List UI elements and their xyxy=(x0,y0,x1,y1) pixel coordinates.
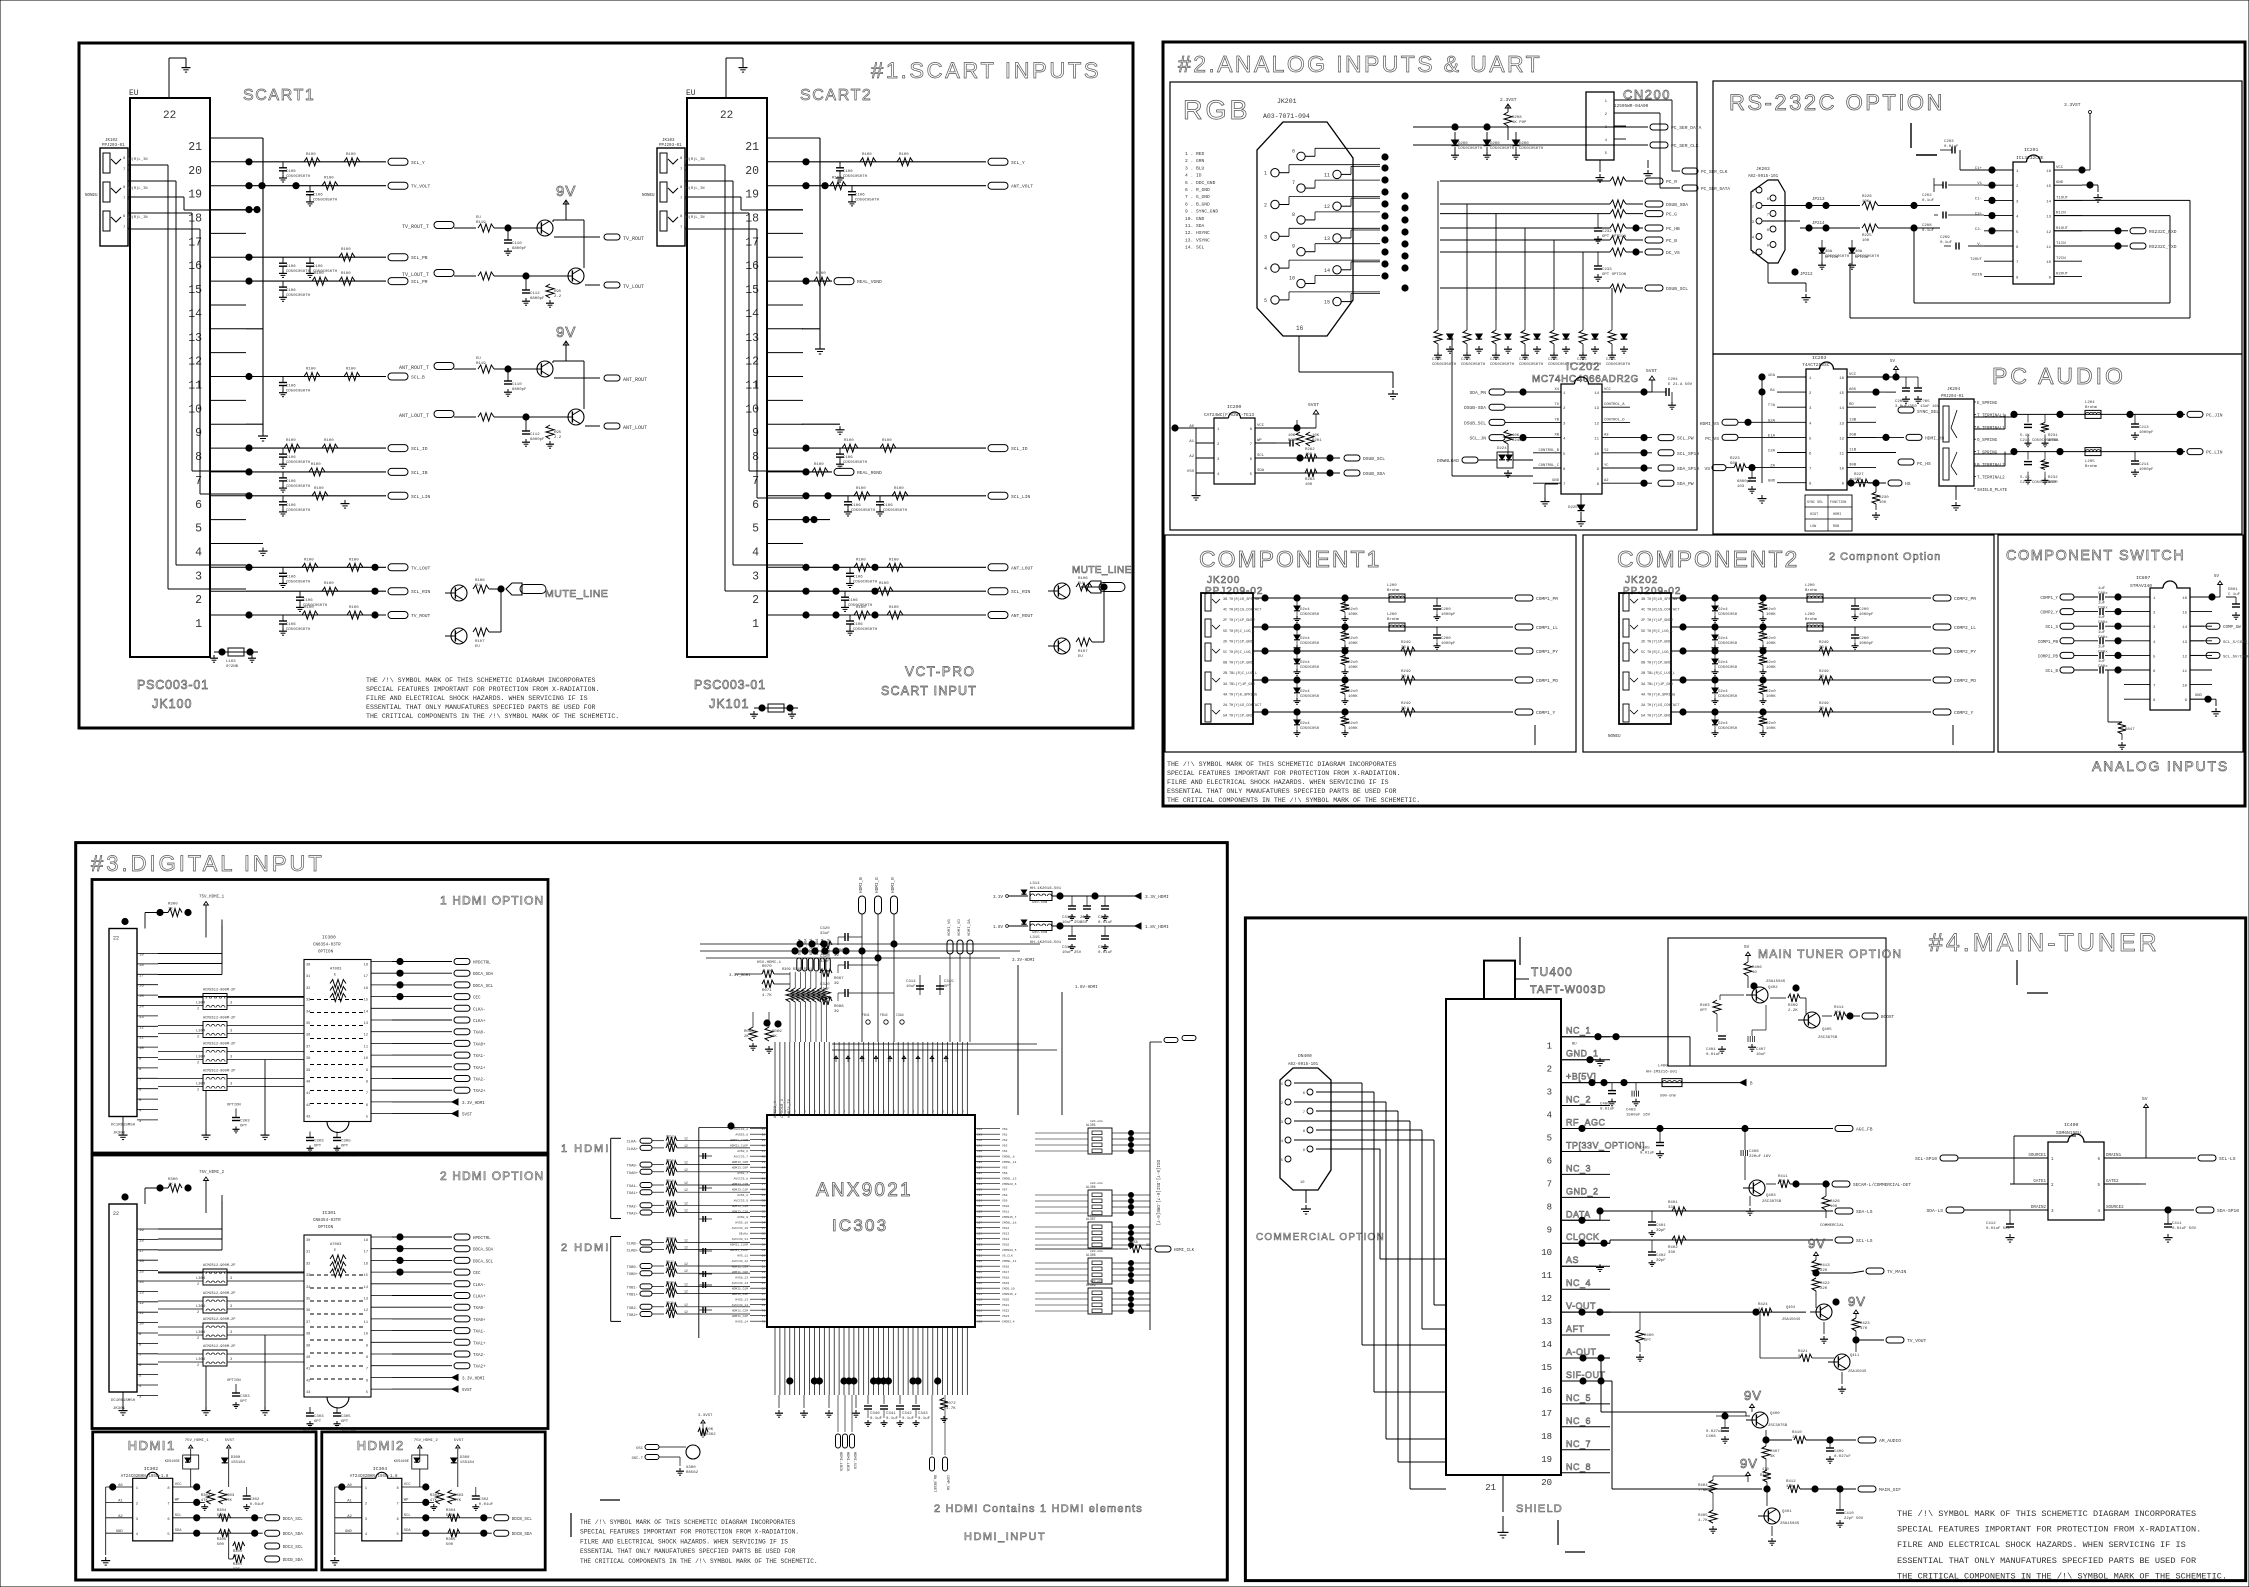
svg-text:C80x: C80x xyxy=(2098,665,2108,669)
svg-text:MC74HC4066ADR2G: MC74HC4066ADR2G xyxy=(1532,374,1639,385)
svg-text:R403: R403 xyxy=(1700,1004,1710,1008)
svg-text:TBL(Y)1P_GND: TBL(Y)1P_GND xyxy=(1229,682,1255,687)
resistor R240 10K xyxy=(1504,430,1512,444)
svg-text:100K: 100K xyxy=(1766,727,1776,731)
svg-text:E_SPRING: E_SPRING xyxy=(1977,402,1998,406)
svg-text:5V: 5V xyxy=(2214,575,2220,579)
svg-text:R100: R100 xyxy=(814,463,824,467)
svg-text:SCL_PR: SCL_PR xyxy=(411,279,428,285)
svg-text:AL309: AL309 xyxy=(1086,1283,1096,1287)
svg-text:6: 6 xyxy=(195,499,202,512)
svg-text:C320: C320 xyxy=(820,927,830,931)
pin 7 IC304 xyxy=(402,1501,426,1503)
svg-text:D2x4: D2x4 xyxy=(1300,690,1310,694)
svg-text:C205: C205 xyxy=(1432,358,1442,362)
svg-text:2: 2 xyxy=(197,1311,199,1315)
resistor series DSUB_SCL xyxy=(1610,284,1626,292)
svg-text:12: 12 xyxy=(684,1209,688,1213)
svg-text:4.7K: 4.7K xyxy=(762,994,772,998)
svg-text:R100: R100 xyxy=(889,558,899,562)
svg-text:6: 6 xyxy=(1250,458,1253,462)
svg-text:R100: R100 xyxy=(346,368,356,372)
svg-text:|: | xyxy=(785,1109,787,1113)
net PC_JIN xyxy=(2012,413,2185,415)
svg-text:VS3: VS3 xyxy=(1002,1145,1008,1148)
svg-text:|: | xyxy=(893,1109,895,1113)
svg-text:10: 10 xyxy=(364,1057,368,1061)
svg-text:C106: C106 xyxy=(851,504,861,508)
bottom component cluster xyxy=(867,1395,869,1404)
svg-text:12: 12 xyxy=(684,1290,688,1294)
svg-text:11: 11 xyxy=(2182,670,2187,674)
svg-text:5: 5 xyxy=(2016,231,2019,235)
svg-text:17: 17 xyxy=(139,974,144,978)
svg-text:C403: C403 xyxy=(1626,1109,1636,1113)
svg-text:12: 12 xyxy=(1541,1294,1552,1304)
transistor Q411 xyxy=(1834,1354,1850,1370)
svg-text:AL308: AL308 xyxy=(1086,1253,1096,1257)
svg-text:2: 2 xyxy=(365,1502,368,1506)
svg-text:REAL_RGND: REAL_RGND xyxy=(857,470,882,476)
svg-text:4.7K: 4.7K xyxy=(1698,1519,1708,1523)
svg-text:C232: C232 xyxy=(1602,230,1612,234)
svg-text:14: 14 xyxy=(1839,407,1844,411)
svg-text:6: 6 xyxy=(366,1104,368,1108)
svg-text:IC304: IC304 xyxy=(373,1466,388,1472)
svg-text:VS14: VS14 xyxy=(1002,1238,1009,1241)
svg-text:TXB2+: TXB2+ xyxy=(627,1314,639,1318)
svg-text:OPTION: OPTION xyxy=(227,1104,241,1108)
svg-text:2: 2 xyxy=(1752,206,1755,210)
svg-text:OPT OPTION: OPT OPTION xyxy=(1602,235,1627,239)
svg-text:FB42: FB42 xyxy=(880,1013,888,1017)
transistor Q2 xyxy=(568,268,584,284)
svg-text:1SS184: 1SS184 xyxy=(460,1461,475,1465)
svg-text:21: 21 xyxy=(745,141,759,154)
svg-text:C341: C341 xyxy=(886,1412,896,1416)
svg-text:11: 11 xyxy=(364,1321,368,1325)
svg-text:1: 1 xyxy=(2016,170,2019,174)
capacitor C403 xyxy=(1635,1083,1637,1091)
svg-text:38: 38 xyxy=(762,1134,766,1137)
pin 6 IC200 xyxy=(1255,457,1276,459)
svg-text:T?A: T?A xyxy=(1768,404,1776,408)
svg-text:HVS5_14: HVS5_14 xyxy=(735,1321,748,1324)
svg-text:C400: C400 xyxy=(1600,1103,1610,1107)
resistor xyxy=(312,277,328,285)
pin 10 IC202 xyxy=(1602,452,1630,454)
svg-text:TH(R)L_IN: TH(R)L_IN xyxy=(684,157,705,162)
svg-text:10K: 10K xyxy=(1834,1011,1842,1015)
pin 3 IC203 xyxy=(1777,406,1806,408)
svg-text:OPT: OPT xyxy=(240,1400,248,1404)
resistor R411 10K xyxy=(1766,1183,1776,1185)
svg-text:37: 37 xyxy=(306,1321,310,1325)
svg-text:5: 5 xyxy=(195,523,202,536)
pin 12 IC807 xyxy=(2190,654,2212,656)
svg-text:12: 12 xyxy=(684,1137,688,1141)
svg-text:R262: R262 xyxy=(1305,448,1315,452)
svg-text:2SC3875B: 2SC3875B xyxy=(1818,1036,1838,1040)
resistor R102 xyxy=(454,416,476,418)
svg-text:R413: R413 xyxy=(1820,1264,1830,1268)
pin 5 IC201 xyxy=(1984,230,2013,232)
svg-text:IC807: IC807 xyxy=(2136,575,2151,581)
ground IC201 xyxy=(2082,184,2098,186)
jack 4 of JK202 xyxy=(1623,672,1629,690)
svg-text:AL307: AL307 xyxy=(1086,1217,1096,1221)
svg-text:39: 39 xyxy=(1146,1243,1150,1247)
svg-text:HDMI_G: HDMI_G xyxy=(875,877,880,893)
capacitor series xyxy=(2099,637,2101,644)
svg-text:7: 7 xyxy=(1767,214,1769,218)
svg-text:7: 7 xyxy=(680,197,682,201)
svg-text:CMOS_10: CMOS_10 xyxy=(1002,1288,1015,1291)
pin 12 IC202 xyxy=(1602,421,1630,423)
svg-text:132: 132 xyxy=(977,1194,982,1197)
svg-text:52: 52 xyxy=(762,1211,766,1214)
resistor R106 xyxy=(473,585,489,593)
svg-text:C106: C106 xyxy=(313,265,323,269)
svg-text:R100: R100 xyxy=(882,439,892,443)
svg-text:22: 22 xyxy=(113,1211,119,1217)
svg-text:113: 113 xyxy=(977,1299,982,1302)
resistor xyxy=(877,587,893,595)
transistor Q404 xyxy=(1816,1304,1832,1320)
svg-text:119: 119 xyxy=(977,1266,982,1269)
svg-text:VS: VS xyxy=(1704,466,1710,472)
terminal HDMI_R xyxy=(891,896,898,914)
svg-text:ANALOG INPUTS: ANALOG INPUTS xyxy=(2092,758,2229,774)
svg-text:2: 2 xyxy=(1605,113,1608,117)
svg-text:1 . RED: 1 . RED xyxy=(1185,151,1205,157)
svg-text:8: 8 xyxy=(123,186,126,190)
svg-text:R100: R100 xyxy=(856,558,866,562)
svg-text:L204: L204 xyxy=(2085,401,2095,405)
svg-text:9: 9 xyxy=(366,1344,368,1348)
svg-text:TX: TX xyxy=(1554,403,1559,407)
svg-text:VS16: VS16 xyxy=(1002,1266,1009,1269)
svg-text:8: 8 xyxy=(1767,229,1770,233)
svg-text:0.01uF: 0.01uF xyxy=(479,1503,494,1507)
svg-text:500: 500 xyxy=(446,1514,454,1518)
pin 16 IC807 xyxy=(2190,596,2212,598)
svg-text:C2-: C2- xyxy=(1975,228,1982,232)
svg-text:1K: 1K xyxy=(168,1183,173,1187)
svg-text:15: 15 xyxy=(364,1274,368,1278)
svg-text:128: 128 xyxy=(977,1216,982,1219)
svg-text:COMP1_PR: COMP1_PR xyxy=(1536,596,1558,602)
svg-text:60: 60 xyxy=(762,1255,766,1258)
svg-text:C404: C404 xyxy=(1706,1048,1716,1052)
svg-text:CD50C050TH: CD50C050TH xyxy=(851,509,876,513)
svg-text:CMOSL_13: CMOSL_13 xyxy=(1002,1178,1017,1181)
svg-text:22: 22 xyxy=(163,110,176,122)
terminal VS resistor R223 xyxy=(1712,465,1726,471)
svg-text:C3A4: C3A4 xyxy=(896,1013,904,1017)
svg-text:Q403: Q403 xyxy=(1766,1194,1776,1198)
svg-text:R071: R071 xyxy=(762,989,772,993)
svg-text:15: 15 xyxy=(1839,392,1844,396)
pin 4 DN400 xyxy=(1285,1137,1291,1143)
svg-text:5V: 5V xyxy=(2142,1096,2148,1102)
svg-text:DDCA_SCL: DDCA_SCL xyxy=(473,985,494,989)
svg-text:CD50C050TH: CD50C050TH xyxy=(286,509,311,513)
svg-text:1uF: 1uF xyxy=(2098,631,2106,635)
svg-text:C80x: C80x xyxy=(2098,621,2108,625)
svg-text:R305: R305 xyxy=(446,1538,456,1542)
svg-text:VS6: VS6 xyxy=(1002,1172,1008,1175)
svg-text:TXB0+: TXB0+ xyxy=(627,1273,639,1277)
svg-text:12. HSYNC: 12. HSYNC xyxy=(1185,230,1210,236)
svg-text:C106: C106 xyxy=(853,623,863,627)
svg-text:SCL_PB: SCL_PB xyxy=(411,255,428,261)
svg-text:KDS160E: KDS160E xyxy=(394,1460,409,1464)
svg-text:CD50C050: CD50C050 xyxy=(1718,613,1738,617)
svg-text:VS18: VS18 xyxy=(1002,1277,1009,1280)
svg-text:CONTROL_D: CONTROL_D xyxy=(1604,418,1625,422)
svg-text:43: 43 xyxy=(306,1116,310,1120)
svg-text:8: 8 xyxy=(680,157,683,161)
svg-text:16: 16 xyxy=(364,987,368,991)
capacitor xyxy=(839,162,841,168)
svg-text:10: 10 xyxy=(139,1047,144,1051)
svg-text:DDCB_SDA: DDCB_SDA xyxy=(283,1559,304,1563)
transistor Q401 xyxy=(1764,1508,1780,1524)
svg-text:1.8V-HDMI: 1.8V-HDMI xyxy=(1075,986,1098,990)
svg-text:2: 2 xyxy=(2153,612,2156,616)
bracket 2 HDMI xyxy=(610,1237,612,1322)
resistor xyxy=(312,492,328,500)
svg-text:R106: R106 xyxy=(1078,577,1088,581)
svg-text:GND: GND xyxy=(1768,480,1776,484)
svg-text:PSC003-01: PSC003-01 xyxy=(694,678,766,692)
IC IC303 ANX9021 body xyxy=(767,1115,975,1327)
svg-text:C203: C203 xyxy=(1944,140,1954,144)
svg-text:TXA0+: TXA0+ xyxy=(473,1043,486,1047)
svg-text:L304: L304 xyxy=(196,1331,206,1335)
svg-text:121: 121 xyxy=(977,1255,982,1258)
svg-text:TV_VOLT: TV_VOLT xyxy=(411,184,431,190)
svg-text:46: 46 xyxy=(762,1178,766,1181)
svg-text:SCL_S: SCL_S xyxy=(2045,626,2058,630)
svg-text:|: | xyxy=(795,1109,797,1113)
svg-text:3.3V_HDMI: 3.3V_HDMI xyxy=(1145,895,1169,900)
terminal TV_LOUT xyxy=(388,564,408,571)
svg-text:C401: C401 xyxy=(1656,1224,1666,1228)
svg-text:WP: WP xyxy=(175,1498,180,1502)
svg-text:131: 131 xyxy=(977,1200,982,1203)
svg-text:SDA: SDA xyxy=(1257,469,1265,473)
svg-text:6: 6 xyxy=(1767,198,1770,202)
svg-text:4: 4 xyxy=(1217,473,1220,477)
svg-text:2: 2 xyxy=(1281,1102,1284,1106)
terminal PC_R xyxy=(1645,178,1663,184)
svg-text:201B: 201B xyxy=(1080,916,1090,920)
svg-text:R249: R249 xyxy=(1401,641,1411,645)
svg-text:500: 500 xyxy=(446,1543,454,1547)
svg-text:L103: L103 xyxy=(226,660,236,664)
internal dashed rows IC xyxy=(310,999,365,1001)
svg-text:1000pF: 1000pF xyxy=(2139,468,2154,472)
svg-text:3: 3 xyxy=(136,1518,139,1522)
svg-text:GND: GND xyxy=(2056,181,2064,185)
connector JK102 jack body xyxy=(100,148,128,246)
svg-text:CD50C050TH: CD50C050TH xyxy=(286,294,311,298)
svg-text:135: 135 xyxy=(977,1178,982,1181)
svg-text:HDMI-LBCK: HDMI-LBCK xyxy=(845,1452,849,1472)
svg-text:14. SCL: 14. SCL xyxy=(1185,245,1205,251)
svg-text:PC_SER_DATA: PC_SER_DATA xyxy=(1671,125,1702,131)
svg-text:39pF: 39pF xyxy=(1656,1229,1666,1233)
svg-text:DSUB_SCL: DSUB_SCL xyxy=(1666,286,1688,292)
svg-text:COMP_SW: COMP_SW xyxy=(945,1475,949,1491)
svg-text:C106: C106 xyxy=(855,194,865,198)
svg-text:L200: L200 xyxy=(1387,613,1397,617)
transistor Q108 xyxy=(451,628,467,644)
svg-text:33: 33 xyxy=(1819,707,1824,711)
svg-text:FILRE AND ELECTRICAL SHOCK HAZ: FILRE AND ELECTRICAL SHOCK HAZARDS. WHEN… xyxy=(1897,1540,2186,1550)
svg-text:R208: R208 xyxy=(1512,116,1522,120)
power arrows bottom right xyxy=(392,1101,452,1103)
svg-text:54: 54 xyxy=(762,1222,766,1225)
resistor R405 4.7K xyxy=(1709,1510,1717,1523)
svg-text:R100: R100 xyxy=(832,177,842,181)
svg-text:C106: C106 xyxy=(286,289,296,293)
svg-text:22: 22 xyxy=(113,936,119,942)
svg-text:C303: C303 xyxy=(314,1415,324,1419)
svg-text:R323: R323 xyxy=(666,1267,674,1271)
wires JK204 to nets xyxy=(1974,416,2012,418)
svg-text:6: 6 xyxy=(366,1379,368,1383)
svg-text:TV_LOUT_T: TV_LOUT_T xyxy=(402,272,429,278)
svg-text:3: 3 xyxy=(230,1030,232,1034)
svg-text:COMP1_Y: COMP1_Y xyxy=(1536,710,1556,716)
power 5VST IC200 xyxy=(1276,427,1316,429)
resistor R118 xyxy=(454,368,476,370)
svg-text:500: 500 xyxy=(217,1543,225,1547)
svg-text:COMP_SW: COMP_SW xyxy=(2223,626,2241,630)
svg-text:1 HDMI: 1 HDMI xyxy=(561,1143,610,1155)
capacitor series xyxy=(2099,608,2101,615)
svg-text:2: 2 xyxy=(197,1337,199,1341)
svg-text:12: 12 xyxy=(684,1168,688,1172)
svg-text:C213: C213 xyxy=(2139,426,2149,430)
svg-text:R402: R402 xyxy=(1668,1246,1678,1250)
svg-text:C412: C412 xyxy=(1986,1222,1996,1226)
svg-text:HVS_11: HVS_11 xyxy=(737,1255,748,1258)
svg-text:CD50C050: CD50C050 xyxy=(1300,642,1320,646)
svg-text:6: 6 xyxy=(2153,670,2156,674)
svg-text:A7063: A7063 xyxy=(330,1243,342,1247)
svg-text:CD50C050TH: CD50C050TH xyxy=(1490,363,1515,367)
svg-text:NONEU: NONEU xyxy=(642,194,655,198)
svg-text:XB: XB xyxy=(1554,434,1559,438)
svg-text:CEC: CEC xyxy=(473,1272,481,1276)
net row SCART1 pin 11 xyxy=(246,376,386,378)
terminal SECAM-L/COMMERCIAL-DET xyxy=(1832,1181,1850,1187)
svg-text:30B: 30B xyxy=(1849,464,1857,468)
section frame #1 SCART INPUTS xyxy=(79,43,1133,728)
svg-text:VS2: VS2 xyxy=(1002,1139,1008,1142)
svg-text:6: 6 xyxy=(1547,1157,1552,1167)
connector JK202 body xyxy=(1619,593,1671,724)
wire IC202 gnd xyxy=(1545,483,1558,485)
svg-text:SDA-LS: SDA-LS xyxy=(1926,1208,1943,1214)
svg-text:TXA2-: TXA2- xyxy=(627,1205,638,1209)
svg-text:R322: R322 xyxy=(666,1260,674,1264)
svg-text:ANT_LOUT: ANT_LOUT xyxy=(1011,565,1033,571)
transistor Q1 xyxy=(537,220,553,236)
svg-text:R107: R107 xyxy=(1078,650,1088,654)
svg-text:8: 8 xyxy=(1809,483,1812,487)
series cap rows C320 C321 C322 xyxy=(844,933,846,941)
pin 6 IC304 xyxy=(402,1517,426,1519)
svg-text:12: 12 xyxy=(684,1161,688,1165)
svg-text:39: 39 xyxy=(306,1344,310,1348)
net DDC3_SCL option xyxy=(228,1533,230,1546)
svg-text:TH(Y)1P_GND: TH(Y)1P_GND xyxy=(1647,714,1671,719)
svg-text:5: 5 xyxy=(139,1099,142,1103)
svg-text:HDMI1_C2M: HDMI1_C2M xyxy=(732,1310,748,1313)
svg-text:15: 15 xyxy=(2182,612,2187,616)
svg-text:39pF: 39pF xyxy=(1656,1259,1666,1263)
pin 13 IC201 xyxy=(2054,215,2082,217)
terminal SCL_B xyxy=(388,373,408,380)
terminal SCL_PB xyxy=(388,254,408,261)
svg-text:33: 33 xyxy=(1401,707,1406,711)
inner box RGB/UART xyxy=(1170,82,1697,530)
terminals HDMI_VG HDMI_VD HDMI_DA xyxy=(947,940,953,954)
pin 6 IC400 xyxy=(2104,1157,2140,1159)
jack 4 of JK200 xyxy=(1205,672,1211,690)
svg-text:JK101: JK101 xyxy=(709,697,749,711)
svg-text:CD50C050: CD50C050 xyxy=(1718,642,1738,646)
terminals left of IC202 xyxy=(1489,389,1505,395)
bottom ground row xyxy=(778,1395,780,1408)
svg-text:T1OUT: T1OUT xyxy=(2056,196,2069,200)
svg-text:R100: R100 xyxy=(862,153,872,157)
svg-text:IC400: IC400 xyxy=(2064,1122,2079,1128)
resistor-diode terminator array xyxy=(1437,320,1439,330)
svg-text:16: 16 xyxy=(364,1262,368,1266)
svg-text:5: 5 xyxy=(1264,298,1267,304)
svg-text:40: 40 xyxy=(306,1081,310,1085)
svg-text:DRAIN1: DRAIN1 xyxy=(2106,1154,2122,1158)
svg-text:DOWNLOAD: DOWNLOAD xyxy=(1437,458,1459,464)
svg-text:TXA0-: TXA0- xyxy=(473,1032,486,1036)
svg-text:5A: 5A xyxy=(1641,715,1646,719)
svg-text:0.01uF 50V: 0.01uF 50V xyxy=(1986,1227,2011,1231)
svg-text:6800pF: 6800pF xyxy=(530,438,545,442)
svg-text:RGB: RGB xyxy=(1833,525,1839,529)
svg-text:C303: C303 xyxy=(314,1140,324,1144)
svg-text:43: 43 xyxy=(762,1161,766,1164)
svg-text:62: 62 xyxy=(762,1266,766,1269)
capacitor C410 22pF xyxy=(1839,1489,1841,1510)
svg-text:3A: 3A xyxy=(1223,683,1228,687)
svg-text:1: 1 xyxy=(195,618,202,631)
svg-text:DDCB_SCL: DDCB_SCL xyxy=(512,1518,533,1522)
svg-text:44: 44 xyxy=(762,1167,766,1170)
svg-text:41: 41 xyxy=(306,1368,310,1372)
svg-text:136: 136 xyxy=(977,1172,982,1175)
svg-text:CD50C050: CD50C050 xyxy=(1718,695,1738,699)
svg-text:R2x0: R2x0 xyxy=(1348,722,1358,726)
svg-text:30A: 30A xyxy=(1825,250,1833,254)
long nets RGB to right pills xyxy=(1440,180,1610,182)
ground Q403 xyxy=(1749,1196,1751,1206)
